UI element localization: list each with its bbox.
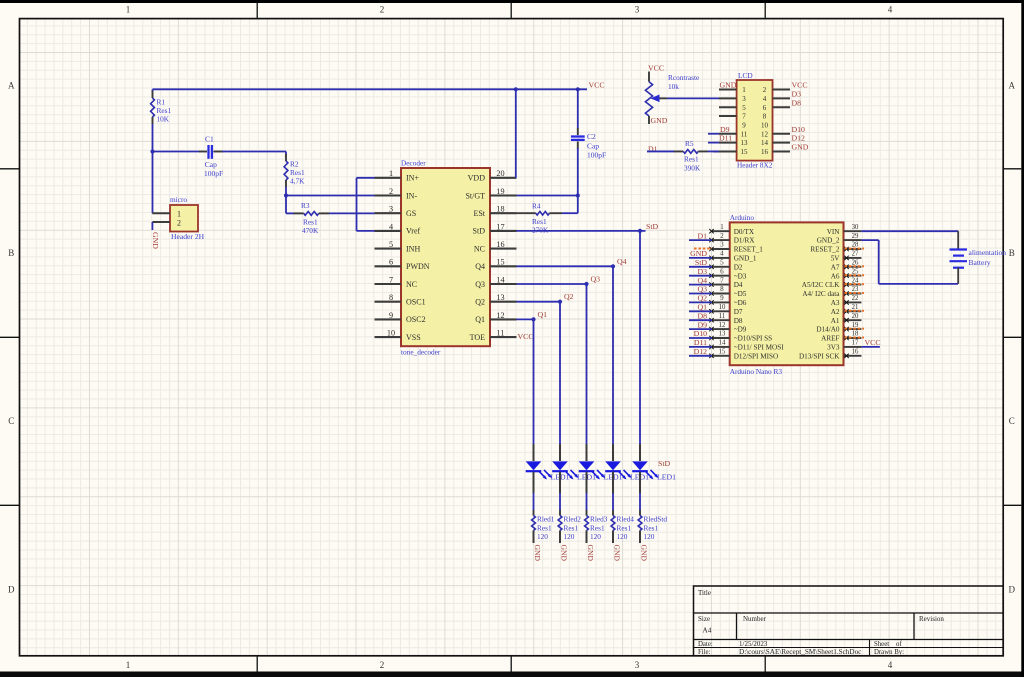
svg-text:16: 16	[761, 148, 769, 156]
svg-text:D1/RX: D1/RX	[734, 237, 756, 245]
svg-text:StD: StD	[473, 227, 486, 236]
svg-text:4,7K: 4,7K	[290, 177, 305, 186]
svg-text:Cap: Cap	[587, 142, 599, 151]
svg-text:TOE: TOE	[470, 333, 486, 342]
svg-text:GND: GND	[560, 545, 569, 562]
svg-text:VCC: VCC	[792, 81, 808, 90]
svg-text:Q1: Q1	[475, 315, 485, 324]
svg-text:14: 14	[761, 139, 769, 147]
svg-text:18: 18	[496, 205, 504, 214]
svg-text:Vref: Vref	[406, 227, 421, 236]
svg-text:GND: GND	[533, 545, 542, 562]
svg-text:5V: 5V	[831, 255, 841, 263]
svg-text:~D9: ~D9	[734, 326, 747, 334]
svg-text:C2: C2	[587, 132, 596, 141]
svg-text:GND: GND	[690, 249, 707, 258]
svg-text:2: 2	[720, 233, 724, 240]
svg-text:GND_2: GND_2	[817, 237, 840, 245]
svg-text:D3: D3	[697, 267, 707, 276]
svg-text:19: 19	[496, 187, 504, 196]
svg-text:1/25/2023: 1/25/2023	[739, 640, 768, 648]
svg-text:File:: File:	[698, 649, 711, 656]
svg-text:20: 20	[496, 169, 504, 178]
svg-text:1: 1	[126, 5, 131, 15]
svg-text:16: 16	[496, 240, 504, 249]
svg-text:~D10/SPI SS: ~D10/SPI SS	[734, 335, 772, 343]
svg-text:Decoder: Decoder	[401, 159, 426, 168]
svg-text:VCC: VCC	[648, 64, 664, 73]
svg-text:16: 16	[852, 349, 859, 356]
svg-text:12: 12	[761, 130, 769, 138]
svg-text:D8: D8	[734, 317, 743, 325]
svg-text:Q4: Q4	[475, 262, 485, 271]
svg-text:A1: A1	[831, 317, 840, 325]
svg-text:A7: A7	[831, 263, 840, 271]
svg-text:Size: Size	[698, 615, 710, 623]
svg-text:6: 6	[763, 104, 767, 112]
svg-text:3: 3	[720, 242, 724, 249]
svg-text:4: 4	[389, 222, 393, 231]
svg-text:29: 29	[852, 233, 859, 240]
svg-text:5: 5	[389, 240, 393, 249]
svg-text:Sheet: Sheet	[874, 641, 889, 648]
svg-text:20: 20	[852, 313, 859, 320]
svg-text:C: C	[8, 416, 14, 426]
svg-text:8: 8	[763, 113, 767, 121]
svg-text:10k: 10k	[668, 82, 679, 91]
svg-text:Battery: Battery	[969, 258, 991, 267]
svg-text:D7: D7	[734, 308, 743, 316]
svg-text:3: 3	[742, 95, 746, 103]
svg-text:15: 15	[719, 349, 726, 356]
svg-text:D:\cours\SAE\Recept_SM\Sheet1.: D:\cours\SAE\Recept_SM\Sheet1.SchDoc	[739, 648, 861, 656]
svg-text:GND_1: GND_1	[734, 255, 757, 263]
svg-text:D9: D9	[720, 125, 730, 134]
svg-text:3: 3	[635, 5, 640, 15]
svg-text:1: 1	[742, 86, 746, 94]
svg-text:10: 10	[387, 329, 395, 338]
svg-text:10K: 10K	[157, 115, 170, 124]
svg-text:4: 4	[888, 660, 893, 670]
svg-text:14: 14	[496, 275, 504, 284]
svg-text:StD: StD	[695, 258, 708, 267]
svg-text:7: 7	[720, 277, 724, 284]
svg-text:Rled2: Rled2	[564, 515, 582, 524]
svg-text:A: A	[1009, 81, 1016, 91]
svg-text:120: 120	[644, 532, 655, 541]
svg-text:Cap: Cap	[205, 160, 217, 169]
svg-text:StD: StD	[646, 222, 659, 231]
svg-text:GND: GND	[792, 143, 809, 152]
svg-text:Rcontraste: Rcontraste	[668, 73, 699, 82]
svg-text:Q3: Q3	[591, 275, 601, 284]
svg-text:3: 3	[389, 205, 393, 214]
svg-text:D: D	[8, 585, 15, 595]
svg-text:GND: GND	[651, 116, 668, 125]
svg-text:Q3: Q3	[697, 285, 707, 294]
svg-text:A5/I2C CLK: A5/I2C CLK	[802, 281, 841, 289]
svg-text:GND: GND	[151, 232, 160, 249]
svg-text:A2: A2	[831, 308, 840, 316]
svg-text:D11: D11	[694, 338, 707, 347]
svg-text:D4: D4	[734, 281, 743, 289]
svg-text:5: 5	[742, 104, 746, 112]
svg-text:Rled4: Rled4	[617, 515, 635, 524]
svg-text:470K: 470K	[302, 226, 319, 235]
svg-text:alimentation: alimentation	[969, 248, 1007, 257]
svg-text:Number: Number	[743, 615, 767, 623]
svg-text:VIN: VIN	[827, 228, 841, 236]
svg-text:D3: D3	[792, 90, 802, 99]
svg-text:D12: D12	[792, 134, 806, 143]
svg-text:C1: C1	[205, 135, 214, 144]
svg-text:Title: Title	[698, 589, 711, 597]
svg-text:120: 120	[564, 532, 575, 541]
svg-text:22: 22	[852, 295, 859, 302]
svg-text:30: 30	[852, 224, 859, 231]
svg-text:120: 120	[537, 532, 548, 541]
svg-text:micro: micro	[170, 195, 187, 204]
svg-text:Q2: Q2	[564, 292, 574, 301]
svg-text:D8: D8	[792, 98, 802, 107]
svg-text:2: 2	[177, 219, 181, 228]
svg-text:100pF: 100pF	[587, 151, 606, 160]
svg-text:D10: D10	[792, 125, 806, 134]
svg-text:D1: D1	[697, 231, 707, 240]
svg-text:D0/TX: D0/TX	[734, 228, 755, 236]
svg-text:StD: StD	[658, 459, 671, 468]
svg-text:Q3: Q3	[475, 280, 485, 289]
svg-text:NC: NC	[474, 244, 485, 253]
svg-text:13: 13	[496, 293, 504, 302]
svg-text:1: 1	[126, 660, 131, 670]
svg-text:8: 8	[389, 293, 393, 302]
svg-text:D14/A0: D14/A0	[816, 326, 840, 334]
svg-text:Q4: Q4	[617, 257, 627, 266]
svg-text:Res1: Res1	[684, 155, 699, 164]
svg-text:A: A	[8, 81, 15, 91]
svg-text:17: 17	[852, 340, 859, 347]
svg-text:Q4: Q4	[697, 276, 707, 285]
svg-text:D12: D12	[694, 347, 708, 356]
svg-text:~D5: ~D5	[734, 290, 747, 298]
svg-text:NC: NC	[406, 280, 417, 289]
svg-text:8: 8	[720, 286, 724, 293]
svg-text:12: 12	[496, 311, 504, 320]
svg-text:tone_decoder: tone_decoder	[401, 348, 441, 357]
svg-text:St/GT: St/GT	[465, 191, 485, 200]
svg-text:D12/SPI MISO: D12/SPI MISO	[734, 352, 779, 360]
svg-text:D11: D11	[719, 134, 732, 143]
svg-text:11: 11	[497, 329, 505, 338]
svg-text:A4/ I2C data: A4/ I2C data	[802, 290, 840, 298]
svg-text:OSC1: OSC1	[406, 298, 426, 307]
svg-text:LED1: LED1	[657, 472, 676, 481]
svg-text:9: 9	[720, 295, 724, 302]
svg-text:VSS: VSS	[406, 333, 421, 342]
svg-text:B: B	[8, 248, 14, 258]
svg-text:OSC2: OSC2	[406, 315, 426, 324]
svg-text:D9: D9	[697, 320, 707, 329]
svg-text:C: C	[1009, 416, 1015, 426]
svg-text:27: 27	[852, 251, 859, 258]
svg-text:VCC: VCC	[589, 81, 605, 90]
svg-text:GND: GND	[640, 545, 649, 562]
svg-text:AREF: AREF	[821, 335, 839, 343]
svg-text:IN+: IN+	[406, 174, 419, 183]
svg-text:10: 10	[761, 122, 769, 130]
svg-text:VCC: VCC	[518, 332, 534, 341]
svg-text:INH: INH	[406, 244, 420, 253]
svg-text:Q1: Q1	[538, 310, 548, 319]
svg-text:120: 120	[590, 532, 601, 541]
svg-text:17: 17	[496, 222, 504, 231]
svg-text:3V3: 3V3	[827, 344, 840, 352]
svg-text:R5: R5	[685, 139, 694, 148]
svg-text:Rled3: Rled3	[590, 515, 608, 524]
svg-text:10: 10	[719, 304, 726, 311]
svg-text:1: 1	[389, 169, 393, 178]
svg-text:D13/SPI SCK: D13/SPI SCK	[799, 352, 840, 360]
svg-text:D2: D2	[734, 263, 743, 271]
svg-text:6: 6	[389, 258, 393, 267]
svg-text:4: 4	[720, 251, 724, 258]
svg-text:GND: GND	[720, 81, 737, 90]
svg-text:Rled1: Rled1	[537, 515, 555, 524]
svg-text:Q1: Q1	[697, 303, 707, 312]
svg-text:5: 5	[720, 260, 724, 267]
svg-text:~D3: ~D3	[734, 272, 747, 280]
svg-text:R4: R4	[532, 202, 541, 211]
svg-text:Header 8X2: Header 8X2	[737, 161, 773, 170]
svg-text:9: 9	[742, 122, 746, 130]
svg-text:Q2: Q2	[475, 298, 485, 307]
svg-text:120: 120	[617, 532, 628, 541]
svg-text:PWDN: PWDN	[406, 262, 430, 271]
svg-text:A6: A6	[831, 272, 840, 280]
svg-text:D10: D10	[694, 329, 708, 338]
svg-text:Q2: Q2	[697, 294, 707, 303]
svg-text:of: of	[896, 641, 902, 648]
svg-text:9: 9	[389, 311, 393, 320]
svg-text:Header 2H: Header 2H	[171, 232, 205, 241]
svg-text:3: 3	[635, 660, 640, 670]
svg-text:14: 14	[719, 340, 726, 347]
svg-text:D: D	[1009, 585, 1016, 595]
svg-text:2: 2	[380, 5, 385, 15]
svg-text:13: 13	[741, 139, 749, 147]
svg-text:IN-: IN-	[406, 191, 417, 200]
svg-text:7: 7	[742, 113, 746, 121]
svg-text:LCD: LCD	[738, 71, 753, 80]
svg-text:2: 2	[763, 86, 767, 94]
svg-text:R3: R3	[301, 201, 310, 210]
svg-text:Date:: Date:	[698, 641, 713, 648]
svg-text:VCC: VCC	[865, 338, 881, 347]
svg-text:100pF: 100pF	[204, 169, 223, 178]
svg-text:GND: GND	[586, 545, 595, 562]
svg-text:VDD: VDD	[468, 174, 486, 183]
svg-text:GND: GND	[613, 545, 622, 562]
svg-text:B: B	[1009, 248, 1015, 258]
svg-text:GS: GS	[406, 209, 416, 218]
svg-text:15: 15	[741, 148, 749, 156]
svg-text:A3: A3	[831, 299, 840, 307]
svg-text:Drawn By:: Drawn By:	[874, 649, 904, 656]
svg-text:4: 4	[763, 95, 767, 103]
svg-text:12: 12	[719, 322, 726, 329]
svg-text:6: 6	[720, 268, 724, 275]
svg-text:Revision: Revision	[919, 615, 944, 623]
svg-text:RESET_1: RESET_1	[734, 246, 764, 254]
svg-text:11: 11	[719, 313, 726, 320]
svg-text:390K: 390K	[684, 163, 701, 172]
svg-text:A4: A4	[703, 627, 712, 635]
svg-text:2: 2	[389, 187, 393, 196]
svg-text:~D11/ SPI MOSI: ~D11/ SPI MOSI	[734, 344, 785, 352]
svg-text:Arduino Nano R3: Arduino Nano R3	[730, 367, 783, 376]
svg-text:4: 4	[888, 5, 893, 15]
svg-text:RESET_2: RESET_2	[810, 246, 840, 254]
svg-text:RledStd: RledStd	[644, 515, 668, 524]
svg-text:D8: D8	[697, 311, 707, 320]
svg-text:13: 13	[719, 331, 726, 338]
svg-text:7: 7	[389, 275, 393, 284]
svg-text:ESt: ESt	[473, 209, 485, 218]
svg-text:2: 2	[380, 660, 385, 670]
svg-text:11: 11	[741, 130, 748, 138]
svg-text:Arduino: Arduino	[730, 213, 755, 222]
svg-text:~D6: ~D6	[734, 299, 747, 307]
svg-text:1: 1	[720, 224, 723, 231]
svg-text:1: 1	[177, 210, 181, 219]
svg-text:15: 15	[496, 258, 504, 267]
